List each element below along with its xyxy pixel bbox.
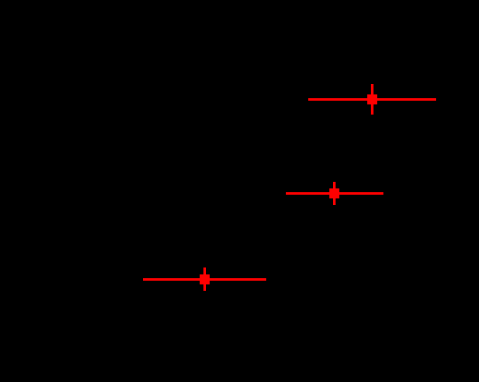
data point 3 x error bar — [143, 278, 266, 281]
data point 1 x error bar — [308, 98, 436, 101]
data point 3 y error bar — [203, 268, 206, 291]
data point 2 x error bar — [286, 192, 384, 195]
data point 1 marker — [367, 94, 377, 104]
data point 2 marker — [329, 188, 339, 198]
data point 3 marker — [200, 274, 210, 284]
data point 1 y error bar — [371, 84, 374, 115]
data point 2 y error bar — [333, 182, 336, 205]
